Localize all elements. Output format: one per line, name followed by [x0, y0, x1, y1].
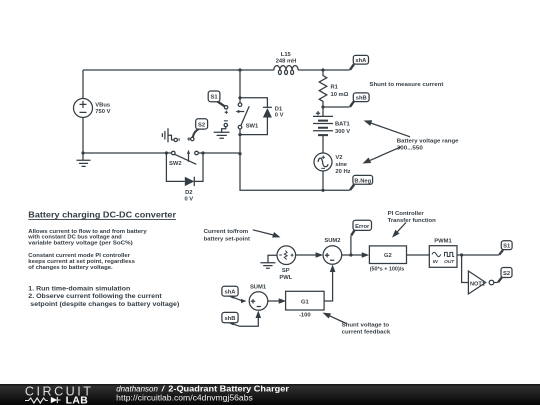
svg-text:LAB: LAB: [66, 395, 89, 405]
svg-text:750 V: 750 V: [95, 109, 110, 115]
paragraph 2: [28, 253, 135, 271]
annotation current to/from battery set-point: [204, 229, 250, 242]
node V2 bottom: [321, 189, 324, 192]
svg-text:current feedback: current feedback: [342, 330, 391, 336]
flag S1 (SW1 control): [208, 91, 225, 107]
svg-text:S2: S2: [198, 122, 205, 128]
annotation PI controller transfer function: [388, 211, 437, 224]
arrow to V2: [363, 147, 402, 164]
logo diode: [51, 397, 61, 403]
svg-text:10 mΩ: 10 mΩ: [331, 92, 349, 98]
svg-text:S2: S2: [503, 271, 510, 277]
flag B.Neg: [350, 175, 373, 190]
svg-text:V2: V2: [335, 155, 342, 161]
svg-text:SW2: SW2: [169, 161, 182, 167]
wire SUM1 to G1: [268, 298, 286, 304]
svg-text:Shunt to measure current: Shunt to measure current: [369, 82, 443, 88]
svg-text:dnathanson / 2-Quadrant Batter: dnathanson / 2-Quadrant Battery Charger: [116, 384, 289, 393]
svg-text:20 Hz: 20 Hz: [335, 169, 350, 175]
wire top bus right: [298, 69, 350, 71]
svg-text:shB: shB: [225, 316, 236, 322]
svg-text:R1: R1: [331, 84, 339, 90]
node R1 bottom: [321, 105, 324, 108]
terminal + SW2 control: [187, 137, 194, 140]
svg-text:NOT1: NOT1: [470, 281, 485, 287]
svg-text:1. Run time-domain simulation: 1. Run time-domain simulation: [28, 286, 130, 293]
diode D2 0 V: [166, 153, 203, 203]
svg-text:0 V: 0 V: [184, 197, 193, 203]
voltage source VBus 750 V: [74, 70, 111, 153]
svg-text:D2: D2: [185, 190, 192, 196]
svg-text:2. Observe current following t: 2. Observe current following the current: [28, 293, 162, 300]
svg-text:-100: -100: [299, 313, 311, 319]
wire B.Neg bus: [240, 154, 350, 191]
gain block G2 (50*s + 100)/s: [369, 246, 406, 273]
svg-text:setpoint (despite changes to b: setpoint (despite changes to battery vol…: [30, 301, 179, 308]
svg-text:BAT1: BAT1: [335, 121, 350, 127]
node top R1 junction: [321, 68, 324, 71]
wire SP to SUM2: [296, 252, 324, 258]
flag shA: [350, 55, 369, 69]
arrow to SP source: [253, 230, 281, 238]
arrow to G2: [392, 223, 406, 238]
svg-text:shA: shA: [355, 58, 367, 64]
annotation shunt voltage to current feedback: [342, 322, 391, 335]
paragraph 1: [27, 229, 147, 246]
svg-text:variable battery voltage (per: variable battery voltage (per SoC%): [28, 240, 133, 246]
svg-text:Battery voltage range: Battery voltage range: [397, 138, 460, 144]
flag S2 output: [498, 268, 512, 283]
summer SUM2: [323, 238, 342, 264]
footer bar: [0, 384, 540, 405]
pwm block PWM1: [429, 238, 457, 267]
wire to NOT gate: [462, 255, 469, 283]
svg-text:PWL: PWL: [279, 275, 292, 281]
numbered list: [28, 286, 179, 308]
svg-text:G1: G1: [301, 300, 310, 306]
node PWM output: [457, 253, 463, 256]
annotation battery voltage range: [397, 138, 460, 151]
heading battery charging dc-dc converter: [28, 210, 176, 220]
svg-text:Transfer function: Transfer function: [388, 218, 437, 224]
svg-text:SUM2: SUM2: [324, 238, 340, 244]
svg-text:SW1: SW1: [246, 124, 259, 130]
wire top bus left: [83, 69, 274, 71]
node D2 left: [165, 151, 168, 154]
logo resistor zigzag: [25, 398, 48, 403]
svg-text:Error: Error: [355, 224, 370, 230]
diode D1 0 V: [240, 98, 284, 135]
svg-text:G2: G2: [384, 253, 392, 259]
svg-text:0 V: 0 V: [275, 112, 284, 118]
flag shB: [350, 93, 369, 107]
svg-text:of changes to battery voltage.: of changes to battery voltage.: [28, 265, 113, 271]
gain block G1 -100: [286, 291, 325, 318]
node error junction: [349, 253, 352, 256]
svg-text:(50*s + 100)/s: (50*s + 100)/s: [370, 266, 405, 272]
svg-text:Battery charging DC-DC convert: Battery charging DC-DC converter: [28, 210, 176, 220]
svg-text:sine: sine: [335, 162, 347, 168]
switch SW2: [169, 150, 198, 167]
summer SUM1: [249, 284, 268, 310]
flag shB input: [222, 311, 261, 327]
svg-text:VBus: VBus: [95, 102, 110, 108]
svg-text:Shunt voltage to: Shunt voltage to: [342, 322, 390, 328]
wire lower bus: [83, 152, 240, 154]
resistor R1 10 mOhm: [319, 70, 349, 107]
ground VBus: [77, 151, 91, 166]
svg-text:PWM1: PWM1: [434, 238, 452, 244]
node top SW1 junction: [238, 68, 241, 71]
wire to shB: [323, 106, 350, 108]
battery BAT1 300 V: [313, 107, 350, 153]
flag Error: [351, 220, 372, 255]
ground SW1 control minus: [214, 121, 230, 138]
svg-text:248 mH: 248 mH: [276, 58, 297, 64]
svg-text:S1: S1: [503, 244, 511, 250]
svg-text:B.Neg: B.Neg: [354, 178, 371, 184]
ground SP: [260, 255, 277, 268]
voltage source V2 sine 20 Hz: [314, 153, 351, 190]
svg-text:shB: shB: [356, 96, 367, 102]
inverter NOT1: [468, 271, 497, 294]
inductor L15 248 mH: [274, 52, 298, 75]
svg-text:300 V: 300 V: [335, 129, 350, 135]
svg-text:IN: IN: [433, 259, 438, 265]
wire to S1 output flag: [462, 254, 499, 256]
node D2 right: [201, 151, 204, 154]
svg-text:shA: shA: [225, 290, 237, 296]
svg-text:http://circuitlab.com/c4dnvmgj: http://circuitlab.com/c4dnvmgj56abs: [116, 393, 253, 402]
wire G2 to PWM1: [407, 254, 430, 256]
svg-text:OUT: OUT: [444, 259, 455, 265]
source SP PWL: [277, 246, 296, 281]
wire G1 to SUM2: [324, 265, 335, 302]
arrow to BAT1: [364, 120, 410, 137]
ground SW2 control minus (rotated): [162, 128, 179, 142]
wire SUM2 to G2: [342, 252, 370, 258]
arrow to G1: [323, 313, 347, 324]
switch SW1: [236, 70, 259, 155]
terminal + SW1 control: [224, 106, 228, 114]
svg-text:SP: SP: [282, 268, 290, 274]
svg-text:battery set-point: battery set-point: [204, 236, 250, 242]
svg-text:Current to/from: Current to/from: [204, 229, 249, 235]
svg-text:S1: S1: [211, 95, 219, 101]
svg-text:L15: L15: [281, 52, 292, 58]
svg-text:PI Controller: PI Controller: [388, 211, 425, 217]
flag shA input: [222, 286, 247, 303]
svg-text:SUM1: SUM1: [250, 284, 267, 290]
flag S1 output: [499, 241, 512, 255]
flag S2 (SW2 control): [193, 119, 208, 138]
